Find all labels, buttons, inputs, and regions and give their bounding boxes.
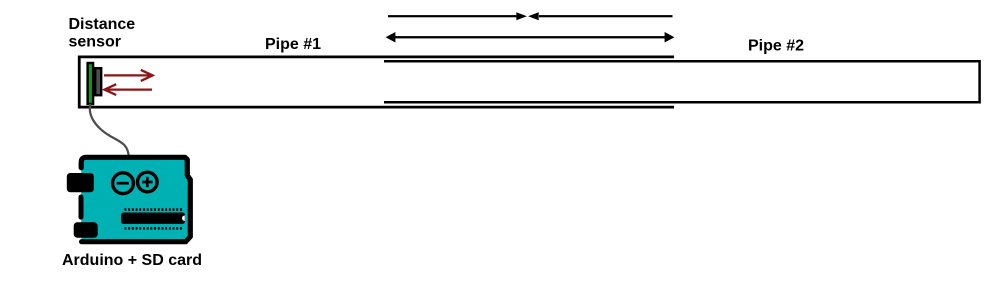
arrow: overlap double-headed: [386, 32, 675, 43]
arduino: USB connector: [67, 173, 94, 192]
arduino board left border segment between connectors: [79, 197, 84, 217]
IC body bar: [121, 213, 185, 224]
sensor: grey body: [95, 68, 101, 95]
sensor: green emitter plate: [88, 63, 94, 104]
arrow: top right-pointing (left half): [388, 12, 527, 20]
svg-text:Pipe #1: Pipe #1: [265, 36, 321, 53]
arduino: power jack: [74, 222, 98, 237]
IC pin row bottom: [125, 227, 183, 230]
svg-text:sensor: sensor: [69, 34, 121, 51]
red arrow pointing right: [104, 70, 153, 81]
svg-text:Arduino + SD card: Arduino + SD card: [62, 252, 202, 269]
sensor cable to arduino: [90, 104, 129, 158]
svg-text:Distance: Distance: [69, 16, 136, 33]
arrow: top left-pointing (right half): [528, 12, 672, 20]
red arrow pointing left: [105, 84, 153, 95]
IC notch (white half circle): [182, 215, 185, 221]
arduino board teal substrate: [81, 157, 190, 241]
arduino board black border (broken at connectors): [81, 157, 190, 241]
pipe #1 outline (open right end): [79, 57, 674, 107]
arduino logo: plus circle: [138, 172, 158, 192]
pipe #2 outline (open left end): [384, 61, 980, 102]
svg-text:Pipe #2: Pipe #2: [748, 38, 804, 55]
arduino logo: minus circle: [113, 173, 134, 194]
IC pin row top: [125, 208, 183, 211]
